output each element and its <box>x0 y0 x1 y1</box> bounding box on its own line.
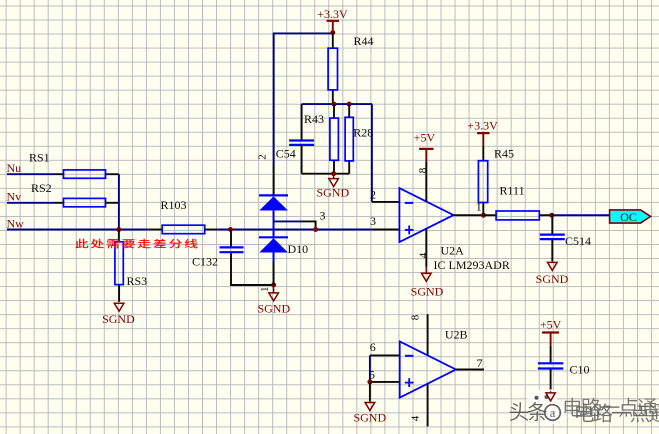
diode D10 lower <box>259 237 308 262</box>
net label Nw <box>7 216 25 230</box>
svg-text:R45: R45 <box>494 146 514 160</box>
power +3.3V top <box>317 7 348 31</box>
svg-text:C514: C514 <box>565 234 591 248</box>
svg-text:6: 6 <box>370 340 376 354</box>
svg-text:4: 4 <box>417 252 429 258</box>
resistor RS1 <box>29 151 119 179</box>
svg-text:R28: R28 <box>353 126 373 140</box>
wire Nw <box>7 229 148 231</box>
svg-text:R43: R43 <box>304 112 324 126</box>
svg-text:RS1: RS1 <box>29 151 50 165</box>
watermark 头条@电路一点通 <box>510 389 659 422</box>
wire RS1/RS2 to node <box>118 174 120 229</box>
junction D10 anode/C132 <box>271 282 276 287</box>
svg-text:Nw: Nw <box>7 216 25 230</box>
wire U2B to ground <box>369 382 371 401</box>
svg-text:RS2: RS2 <box>31 181 52 195</box>
pin 8 U2A <box>417 161 429 201</box>
capacitor C132 <box>192 230 274 286</box>
wire D10 pin3 branch <box>274 221 316 229</box>
pin 4 U2A <box>417 229 429 267</box>
capacitor C514 <box>540 215 591 261</box>
svg-text:OC: OC <box>620 210 637 224</box>
svg-text:SGND: SGND <box>257 301 290 315</box>
resistor R44 <box>328 33 373 105</box>
net label Nu <box>7 161 22 175</box>
pin 5 U2B <box>369 367 400 382</box>
junction U2A output <box>481 213 486 218</box>
capacitor C10 <box>538 346 590 392</box>
label IC LM293ADR <box>434 258 510 272</box>
pin 4 U2B <box>409 384 427 427</box>
op-amp U2B <box>400 342 456 398</box>
svg-text:4: 4 <box>409 415 421 421</box>
svg-text:R111: R111 <box>500 184 525 198</box>
resistor RS3 <box>115 230 147 302</box>
pin label 3 D10 <box>320 209 326 223</box>
svg-text:SGND: SGND <box>316 186 349 200</box>
junction R43 bottom <box>331 171 336 176</box>
pin 7 U2B <box>456 356 484 370</box>
svg-text:+3.3V: +3.3V <box>317 7 348 21</box>
ground SGND RS3 <box>102 303 135 326</box>
junction +3.3V node <box>330 30 335 35</box>
svg-text:IC LM293ADR: IC LM293ADR <box>434 258 510 272</box>
svg-text:+5V: +5V <box>414 131 436 145</box>
wire Nv <box>7 202 55 204</box>
power +5V U2A <box>414 131 436 162</box>
svg-text:C54: C54 <box>276 147 296 161</box>
wire R43/R28 top <box>302 103 373 105</box>
wire U2B pin6 to pin5 <box>369 355 371 382</box>
resistor R28 <box>345 104 373 174</box>
net label Nv <box>7 189 22 203</box>
pin 6 U2B <box>370 340 400 355</box>
ground SGND C514 <box>536 261 569 286</box>
port OC <box>610 210 651 224</box>
svg-text:Nu: Nu <box>7 161 22 175</box>
svg-text:SGND: SGND <box>353 411 386 425</box>
pin 3 U2A <box>370 214 399 230</box>
svg-text:R103: R103 <box>161 198 187 212</box>
ground SGND C10 symbol <box>546 391 555 401</box>
junction R44/R43 <box>332 102 337 107</box>
junction R103/C132 <box>228 227 233 232</box>
resistor RS2 <box>31 181 119 207</box>
svg-text:SGND: SGND <box>102 312 135 326</box>
svg-text:7: 7 <box>477 356 483 370</box>
svg-text:Nv: Nv <box>7 189 22 203</box>
capacitor C54 <box>276 104 314 174</box>
junction D10 pin3/net <box>313 227 318 232</box>
svg-text:U2B: U2B <box>445 327 468 341</box>
wire to port OC <box>552 214 610 216</box>
svg-text:2: 2 <box>370 187 376 201</box>
junction R111/C514 <box>549 213 554 218</box>
ground SGND R43 <box>316 174 349 200</box>
junction R28 top <box>347 102 352 107</box>
pin label 2 D10 <box>256 154 268 160</box>
annotation red text 此处需要走差分线 <box>75 239 197 249</box>
ground SGND D10 <box>257 287 290 315</box>
resistor R103 <box>148 198 218 234</box>
svg-text:R44: R44 <box>354 34 374 48</box>
svg-text:+3.3V: +3.3V <box>467 119 498 133</box>
svg-text:RS3: RS3 <box>127 274 148 288</box>
svg-text:a: a <box>550 406 556 420</box>
wire +3.3V to D10 pin2 <box>274 33 333 166</box>
svg-text:3: 3 <box>320 209 326 223</box>
svg-text:+5V: +5V <box>540 318 562 332</box>
wire D10 anode <box>273 262 275 285</box>
diode D10 upper <box>259 195 288 236</box>
pin 1 U2A output <box>454 200 484 216</box>
ground SGND U2A <box>411 267 444 299</box>
wire R103 to op-amp <box>219 229 372 231</box>
power +5V C10 <box>540 318 562 346</box>
svg-text:3: 3 <box>370 214 376 228</box>
svg-text:SGND: SGND <box>411 284 444 298</box>
svg-text:C10: C10 <box>570 362 590 376</box>
wire to U2A pin2 <box>371 104 373 202</box>
junction U2B pin5 <box>367 379 372 384</box>
pin 2 U2A <box>370 187 399 202</box>
resistor R111 <box>484 184 552 220</box>
wire Nu <box>7 173 55 175</box>
svg-text:8: 8 <box>409 314 421 320</box>
label U2B <box>445 327 468 341</box>
svg-text:C132: C132 <box>192 255 218 269</box>
ground SGND U2B <box>353 401 386 425</box>
power +3.3V right <box>467 119 498 147</box>
svg-text:U2A: U2A <box>441 244 465 258</box>
svg-text:8: 8 <box>417 167 429 173</box>
svg-text:1: 1 <box>259 287 271 293</box>
svg-text:SGND: SGND <box>536 272 569 286</box>
resistor R45 <box>478 146 514 215</box>
pin label 1 D10 <box>259 287 271 293</box>
pin 8 U2B <box>409 314 427 355</box>
pin D10 cathode stub <box>273 166 275 195</box>
svg-text:D10: D10 <box>288 242 309 256</box>
wire R43/R28 bottom <box>302 173 350 175</box>
op-amp U2A <box>399 188 453 242</box>
svg-text:2: 2 <box>256 154 268 160</box>
junction node Nw <box>116 227 121 232</box>
resistor R43 <box>304 104 338 174</box>
label U2A <box>441 244 465 258</box>
